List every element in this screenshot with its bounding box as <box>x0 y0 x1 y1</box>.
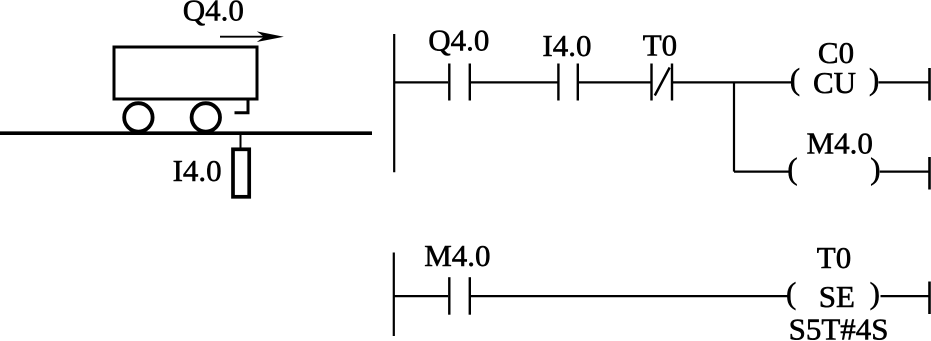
wire contact T0 to coil CU <box>673 81 792 83</box>
svg-text:M4.0: M4.0 <box>807 126 873 161</box>
svg-text:M4.0: M4.0 <box>424 238 490 273</box>
wire rung 2 from rail to contact M4.0 <box>394 295 448 297</box>
limit switch I4.0 body <box>233 149 249 197</box>
contact I4.0 (NO) <box>558 64 577 101</box>
contact M4.0 (NO) <box>449 277 470 315</box>
right rail bar branch <box>928 157 931 190</box>
wire coil SE to right rail <box>881 295 930 297</box>
svg-text:Q4.0: Q4.0 <box>183 0 244 27</box>
svg-text:S5T#4S: S5T#4S <box>789 312 889 341</box>
svg-text:C0: C0 <box>818 35 854 70</box>
svg-text:): ) <box>870 275 880 310</box>
wire contact M4.0 to coil SE <box>471 295 788 297</box>
svg-text:): ) <box>869 62 879 97</box>
ground line <box>0 131 372 135</box>
contact Q4.0 (NO) <box>449 64 470 101</box>
coil M4.0 <box>787 151 880 186</box>
wire coil M4.0 to right rail <box>880 171 929 173</box>
cart body <box>114 47 257 99</box>
right rail bar rung 1 <box>928 68 931 101</box>
svg-text:SE: SE <box>819 279 855 314</box>
svg-text:I4.0: I4.0 <box>542 28 591 63</box>
svg-text:(: ( <box>787 151 797 186</box>
cart cam bracket <box>235 99 249 113</box>
junction branch vertical wire <box>733 82 735 171</box>
limit switch stem wire <box>240 134 242 149</box>
wire contact Q4.0 to contact I4.0 <box>471 81 558 83</box>
svg-text:CU: CU <box>813 65 856 100</box>
right rail bar rung 2 <box>928 282 931 315</box>
svg-text:T0: T0 <box>643 27 677 62</box>
svg-text:(: ( <box>786 275 796 310</box>
cart wheel 2 <box>192 103 220 131</box>
branch wire to coil M4.0 <box>734 171 789 173</box>
wire rung 1 from rail to contact Q4.0 <box>394 81 448 83</box>
svg-text:I4.0: I4.0 <box>173 153 222 188</box>
coil T0 SE timer <box>786 275 880 314</box>
contact T0 (NC) <box>652 64 673 101</box>
wire contact I4.0 to contact T0 <box>579 81 651 83</box>
svg-text:Q4.0: Q4.0 <box>428 23 489 58</box>
left power rail network 2 <box>393 253 395 337</box>
wire coil CU to right rail <box>879 81 930 83</box>
cart wheel 1 <box>124 103 152 131</box>
left power rail network 1 <box>393 34 395 172</box>
coil C0 CU counter <box>790 62 880 100</box>
arrow (cart motion direction) <box>220 31 284 42</box>
svg-text:(: ( <box>790 62 800 97</box>
svg-text:T0: T0 <box>817 240 851 275</box>
